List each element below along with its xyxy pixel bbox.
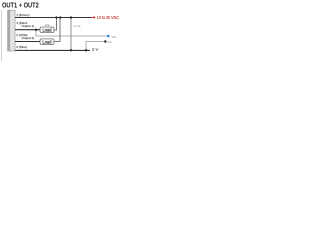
svg-text:wht: wht	[112, 35, 117, 39]
svg-text:10k: 10k	[45, 23, 50, 27]
svg-text:0 V: 0 V	[92, 47, 98, 52]
svg-text:+V dc: +V dc	[73, 24, 81, 28]
svg-text:3 (Blue): 3 (Blue)	[16, 45, 27, 49]
svg-text:1 (Brown): 1 (Brown)	[16, 13, 29, 17]
svg-text:Load: Load	[42, 28, 52, 33]
svg-text:Load: Load	[42, 40, 52, 45]
svg-text:blk: blk	[108, 40, 112, 44]
svg-text:Output 2): Output 2)	[22, 36, 35, 40]
svg-text:OUT1 + OUT2: OUT1 + OUT2	[2, 2, 39, 10]
svg-text:10 to 30 VDC: 10 to 30 VDC	[97, 15, 119, 20]
svg-text:Output 1): Output 1)	[22, 24, 35, 28]
